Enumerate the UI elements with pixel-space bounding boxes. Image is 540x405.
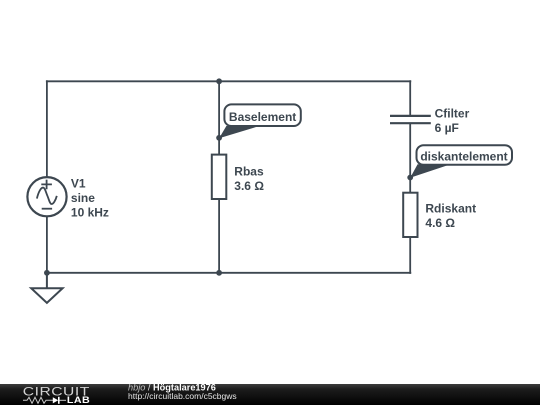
label Rbas value (234, 164, 264, 193)
svg-text:3.6 Ω: 3.6 Ω (234, 179, 264, 193)
annotation Baselement callout (219, 104, 301, 138)
node A (Baselement anchor) (216, 135, 222, 141)
svg-text:4.6 Ω: 4.6 Ω (425, 216, 455, 230)
wire right vertical lower (409, 237, 411, 274)
svg-text:V1: V1 (71, 176, 86, 190)
wire right vertical upper (409, 80, 411, 116)
CircuitLab logo (23, 384, 90, 405)
svg-text:10 kHz: 10 kHz (71, 205, 109, 219)
label Rdiskant value (425, 201, 476, 230)
wire middle vertical upper (218, 81, 220, 154)
wire left vertical lower (46, 216, 48, 273)
footer bar (0, 384, 540, 405)
ground (31, 273, 62, 303)
voltage source V1 (27, 177, 66, 216)
svg-text:Cfilter: Cfilter (435, 106, 470, 120)
svg-text:Baselement: Baselement (229, 110, 296, 124)
junction node ground (44, 270, 50, 276)
capacitor Cfilter (390, 116, 431, 123)
node B (diskantelement anchor) (407, 175, 413, 181)
svg-text:http://circuitlab.com/c5cbgws: http://circuitlab.com/c5cbgws (128, 391, 237, 401)
wire left vertical upper (46, 80, 48, 177)
resistor Rbas (212, 155, 227, 199)
wire middle vertical lower (218, 199, 220, 273)
wire top horizontal (46, 80, 411, 82)
svg-text:Rbas: Rbas (234, 164, 264, 178)
junction node top (216, 78, 222, 84)
svg-text:diskantelement: diskantelement (420, 150, 507, 164)
svg-text:6 µF: 6 µF (435, 121, 459, 135)
wire right vertical middle (409, 123, 411, 193)
wire bottom horizontal (46, 272, 411, 274)
annotation diskantelement callout (410, 145, 512, 178)
svg-text:LAB: LAB (67, 395, 90, 405)
svg-text:sine: sine (71, 191, 95, 205)
resistor Rdiskant (403, 193, 417, 237)
junction node bottom middle (216, 270, 222, 276)
svg-text:Rdiskant: Rdiskant (425, 201, 476, 215)
label V1 value (71, 176, 109, 219)
label Cfilter value (435, 106, 470, 135)
